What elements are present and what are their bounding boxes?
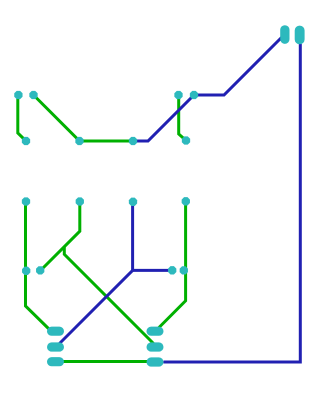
via A5 [129,137,137,145]
wire green net5 J1 branch to E2 [64,247,155,345]
wire blue net3 pad P2 down and across bottom [164,44,301,362]
wire green net4 B1-C1-D1 [26,202,53,333]
wire blue net1 A5 to pad P1 [133,37,283,142]
wire blue net6 horizontal to C3 [133,269,172,272]
via A8 [182,136,190,144]
via A4 [75,137,83,145]
pad D3 [47,357,64,366]
wire green net8 D3-E3 bottom horizontal [56,360,150,363]
via C3 [168,266,176,274]
wire blue net6 B3 vertical [131,202,134,270]
wire green net1 A2-A4 [34,95,80,141]
pad D2 [47,342,64,351]
pad E3 [147,357,164,366]
via C4 [180,266,188,274]
via A6 [190,91,198,99]
via A3 [22,137,30,145]
via C1 [22,267,30,275]
wire green net7 B4-C4-E1 [157,202,186,331]
pad E2 [147,342,164,351]
wire green net1 A4-A5 [80,140,134,143]
wire green net1 A1-A3 [18,96,26,142]
wire blue net6 diagonal to D2 [58,270,133,345]
via B3 [129,198,137,206]
pad E1 [147,327,164,336]
via A1 [14,91,22,99]
via C2 [36,266,44,274]
via A2 [29,91,37,99]
via B1 [22,197,30,205]
pad P2 [295,26,305,45]
pad D1 [47,327,64,336]
via B2 [76,197,84,205]
wire green net2 A7-A8 [179,95,186,141]
wire green net5 B2-J1-C2 [41,202,80,271]
via B4 [182,197,190,205]
via A7 [174,91,182,99]
pad P1 [280,25,289,44]
